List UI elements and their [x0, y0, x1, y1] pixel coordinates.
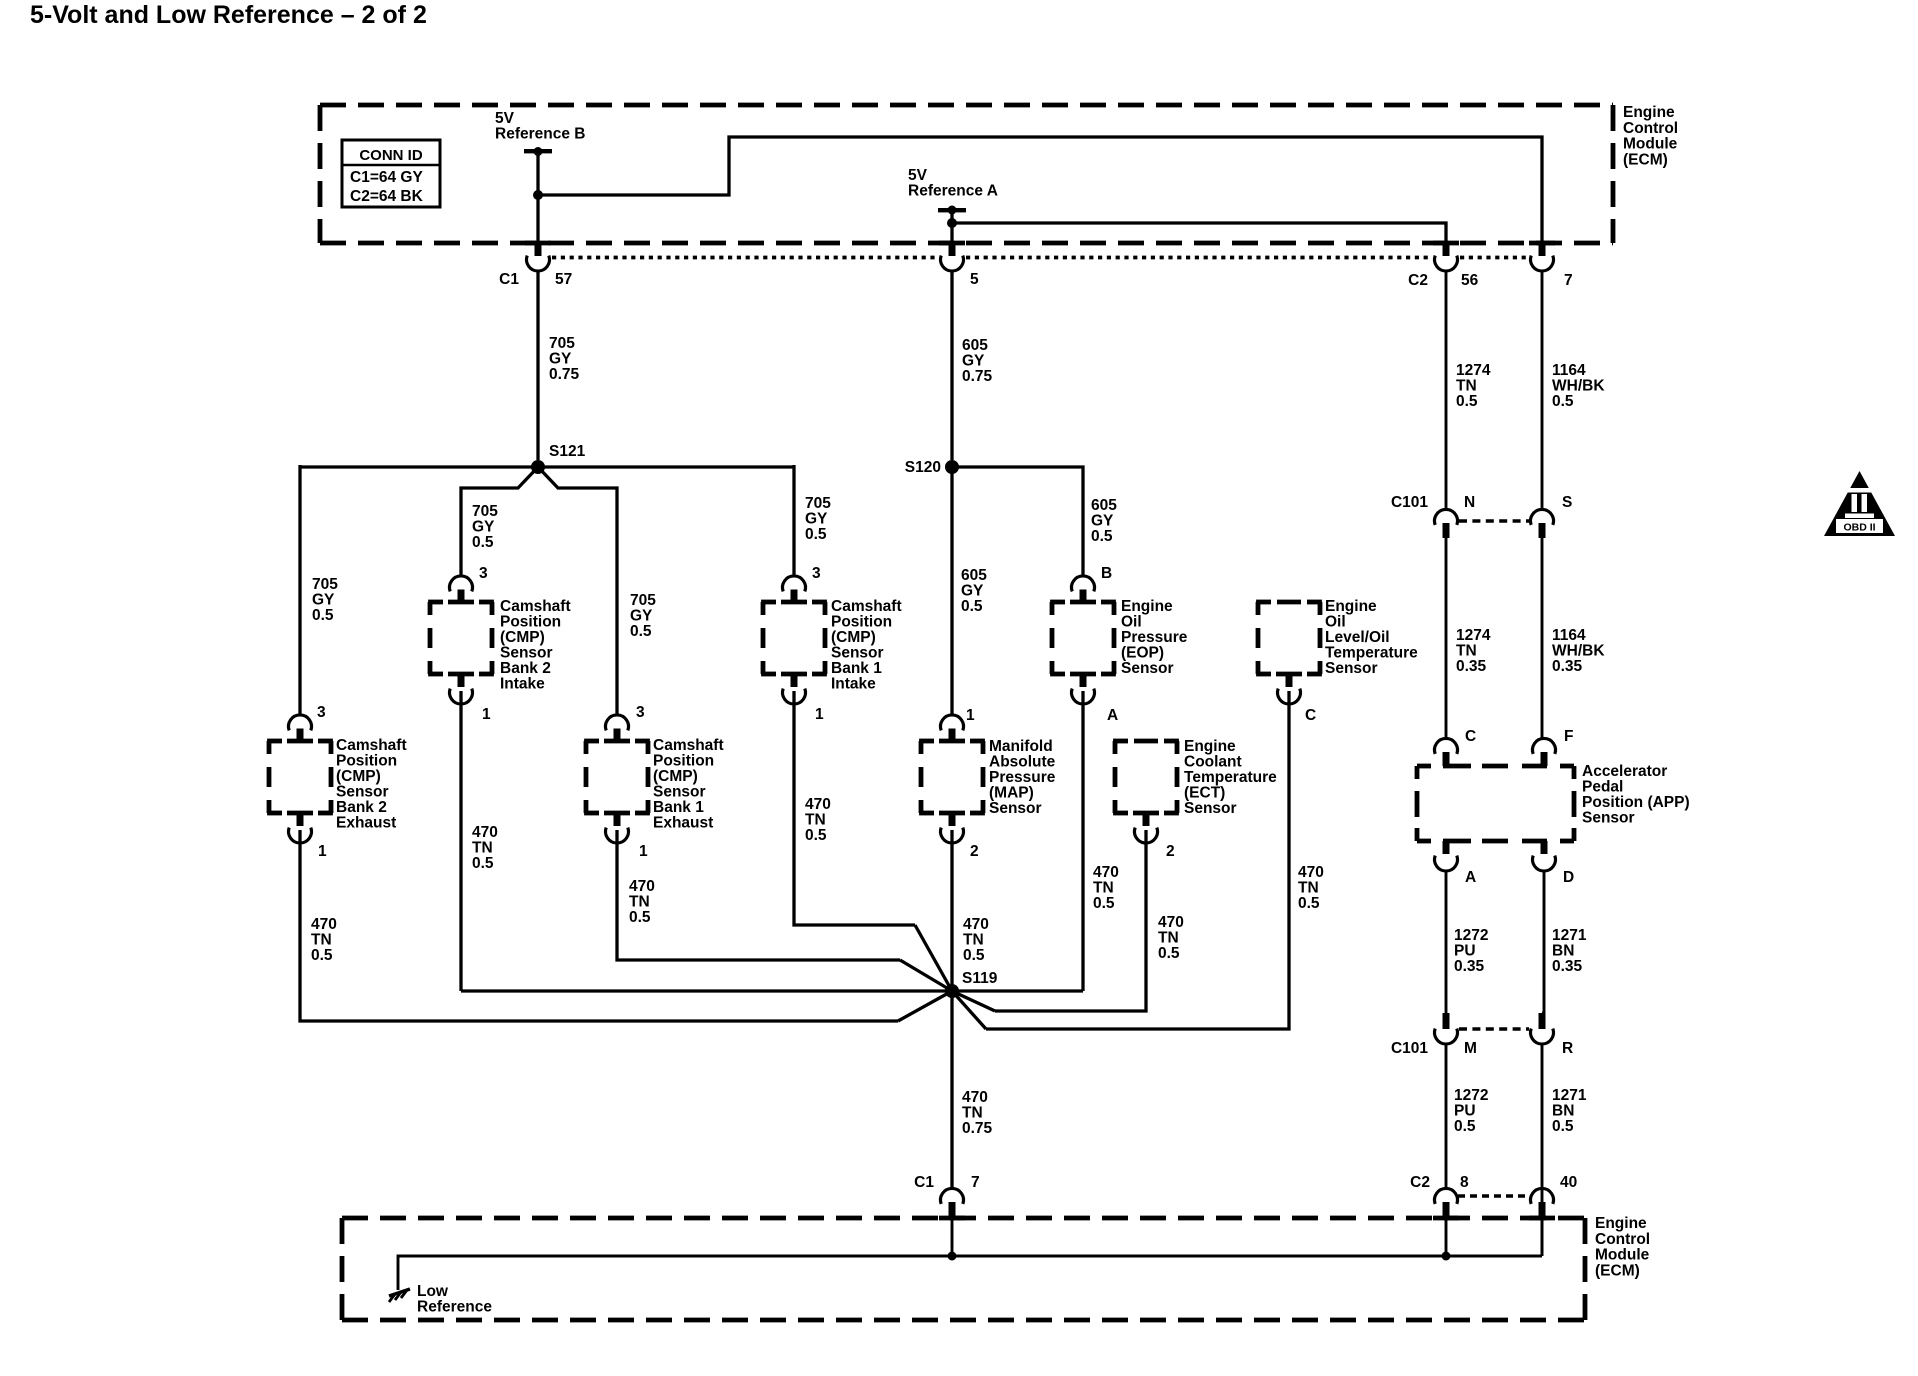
- wire low reference bus: [398, 1256, 1542, 1290]
- svg-text:C2: C2: [1408, 272, 1428, 289]
- svg-text:PU: PU: [1454, 1103, 1476, 1120]
- svg-text:705: 705: [805, 495, 831, 512]
- svg-text:1272: 1272: [1454, 1087, 1488, 1104]
- svg-text:Exhaust: Exhaust: [336, 815, 396, 832]
- junction 5V Ref B: [533, 190, 543, 200]
- sensor CMP Bank 1 Exhaust box: [584, 739, 599, 744]
- svg-text:5V: 5V: [908, 167, 928, 184]
- svg-text:Reference A: Reference A: [908, 183, 998, 200]
- svg-text:1: 1: [815, 706, 824, 723]
- svg-text:1271: 1271: [1552, 1087, 1587, 1104]
- svg-text:Position: Position: [500, 614, 561, 631]
- connector CMP B2 exhaust pin 3: [289, 715, 312, 730]
- svg-text:Camshaft: Camshaft: [336, 737, 407, 754]
- connector CMP B1 exhaust pin 1: [614, 813, 621, 826]
- connector APP pin A: [1443, 841, 1450, 854]
- wire 1164 WH/BK 0.5: [1541, 270, 1544, 510]
- wire b2e diag: [898, 991, 952, 1021]
- connector C2 pin 7: [1539, 243, 1546, 256]
- connector EOP pin B: [1072, 576, 1095, 591]
- svg-text:(ECT): (ECT): [1184, 785, 1225, 802]
- svg-text:0.5: 0.5: [1298, 895, 1320, 912]
- splice S120: [945, 460, 959, 474]
- svg-text:0.5: 0.5: [1158, 945, 1180, 962]
- svg-text:Sensor: Sensor: [989, 800, 1042, 817]
- svg-text:C101: C101: [1391, 494, 1428, 511]
- wire S120 down: [950, 467, 953, 716]
- svg-text:705: 705: [630, 592, 656, 609]
- wire 5V Ref A vertical: [950, 210, 953, 243]
- svg-text:TN: TN: [962, 1105, 983, 1122]
- svg-text:0.75: 0.75: [962, 1120, 993, 1137]
- wire 1272 PU 0.35: [1445, 870, 1448, 1013]
- connector MAP pin 2: [949, 813, 956, 826]
- svg-text:BN: BN: [1552, 1103, 1574, 1120]
- svg-text:S: S: [1562, 494, 1572, 511]
- svg-text:Camshaft: Camshaft: [653, 737, 724, 754]
- svg-text:A: A: [1107, 707, 1118, 724]
- svg-text:Sensor: Sensor: [831, 645, 884, 662]
- connector C101 R: [1539, 1013, 1546, 1029]
- connector CMP B2 exhaust pin 1: [297, 813, 304, 826]
- svg-text:470: 470: [629, 878, 655, 895]
- svg-text:7: 7: [971, 1174, 980, 1191]
- svg-text:R: R: [1562, 1040, 1573, 1057]
- svg-text:470: 470: [1298, 864, 1324, 881]
- sensor CMP Bank 2 Intake box: [428, 600, 443, 605]
- svg-text:470: 470: [963, 916, 989, 933]
- svg-text:57: 57: [555, 271, 572, 288]
- svg-text:PU: PU: [1454, 943, 1476, 960]
- svg-text:1271: 1271: [1552, 927, 1587, 944]
- svg-text:Pressure: Pressure: [989, 769, 1056, 786]
- svg-text:0.5: 0.5: [1456, 393, 1478, 410]
- sensor APP box: [1417, 764, 1431, 769]
- svg-text:Engine: Engine: [1325, 598, 1377, 615]
- svg-text:0.35: 0.35: [1552, 958, 1583, 975]
- wire 1274 TN 0.35: [1445, 538, 1448, 740]
- svg-text:GY: GY: [630, 608, 653, 625]
- svg-text:A: A: [1465, 869, 1476, 886]
- node 5V Reference A terminal: [938, 208, 966, 212]
- connector C2 pin 40 bottom: [1530, 1188, 1553, 1203]
- svg-text:Accelerator: Accelerator: [1582, 763, 1667, 780]
- svg-text:D: D: [1563, 869, 1574, 886]
- svg-text:WH/BK: WH/BK: [1552, 643, 1605, 660]
- wire S121 left corner down: [298, 465, 301, 715]
- svg-text:Temperature: Temperature: [1325, 645, 1418, 662]
- svg-text:GY: GY: [962, 353, 985, 370]
- svg-text:1164: 1164: [1552, 627, 1586, 644]
- svg-text:5: 5: [970, 271, 979, 288]
- svg-text:605: 605: [1091, 497, 1117, 514]
- svg-text:Pedal: Pedal: [1582, 779, 1623, 796]
- svg-text:(CMP): (CMP): [653, 768, 698, 785]
- svg-text:2: 2: [970, 843, 979, 860]
- C101 MR dashed line: [1459, 1027, 1529, 1030]
- svg-text:5V: 5V: [495, 110, 515, 127]
- svg-text:1274: 1274: [1456, 362, 1491, 379]
- junction 5V Ref A: [947, 218, 957, 228]
- svg-text:Intake: Intake: [500, 676, 545, 693]
- svg-text:2: 2: [1166, 843, 1175, 860]
- svg-text:C101: C101: [1391, 1040, 1428, 1057]
- svg-text:5-Volt and Low Reference – 2 o: 5-Volt and Low Reference – 2 of 2: [30, 1, 427, 29]
- svg-text:Bank 1: Bank 1: [831, 660, 882, 677]
- connector C1 pin 5: [949, 243, 956, 256]
- wire 1274 TN 0.5: [1445, 270, 1448, 510]
- ECM bottom box outline: [342, 1216, 1585, 1221]
- svg-text:Manifold: Manifold: [989, 738, 1053, 755]
- svg-text:BN: BN: [1552, 943, 1574, 960]
- svg-text:0.75: 0.75: [962, 368, 993, 385]
- sensor CMP Bank 2 Exhaust box: [267, 739, 282, 744]
- svg-text:470: 470: [1093, 864, 1119, 881]
- svg-text:0.5: 0.5: [805, 827, 827, 844]
- svg-text:3: 3: [479, 565, 488, 582]
- svg-text:1: 1: [318, 843, 327, 860]
- svg-text:TN: TN: [805, 812, 826, 829]
- wire S121 bracket left: [461, 467, 538, 576]
- svg-text:Control: Control: [1595, 1231, 1650, 1248]
- sensor CMP Bank 1 Intake box: [761, 600, 776, 605]
- svg-text:470: 470: [962, 1089, 988, 1106]
- svg-text:Bank 2: Bank 2: [336, 799, 387, 816]
- junction pin8 bottom: [1442, 1252, 1451, 1261]
- svg-text:C: C: [1305, 707, 1316, 724]
- svg-text:470: 470: [805, 796, 831, 813]
- svg-text:8: 8: [1460, 1174, 1469, 1191]
- sensor oil level box: [1256, 600, 1271, 605]
- sensor EOP box: [1050, 600, 1065, 605]
- connector C1 pin 7 bottom: [941, 1188, 964, 1203]
- splice S119: [945, 984, 959, 998]
- wire b1e diag: [900, 960, 952, 991]
- wire b1i diag: [915, 925, 952, 991]
- svg-text:470: 470: [472, 824, 498, 841]
- svg-text:0.5: 0.5: [1552, 1118, 1574, 1135]
- svg-text:0.75: 0.75: [549, 366, 580, 383]
- svg-text:Control: Control: [1623, 120, 1678, 137]
- svg-text:Position: Position: [336, 753, 397, 770]
- svg-text:1: 1: [966, 707, 975, 724]
- svg-text:C1: C1: [914, 1174, 934, 1191]
- svg-text:TN: TN: [311, 932, 332, 949]
- svg-text:470: 470: [1158, 914, 1184, 931]
- sensor ECT box: [1113, 739, 1128, 744]
- wire S121 right corner down: [792, 465, 795, 576]
- wire 605 GY 0.75: [950, 270, 953, 460]
- svg-text:Temperature: Temperature: [1184, 769, 1277, 786]
- connector ECT pin 2: [1143, 813, 1150, 826]
- svg-text:Oil: Oil: [1325, 614, 1346, 631]
- svg-text:(MAP): (MAP): [989, 785, 1034, 802]
- svg-text:C2: C2: [1410, 1174, 1430, 1191]
- svg-text:Absolute: Absolute: [989, 754, 1056, 771]
- svg-text:0.5: 0.5: [629, 909, 651, 926]
- svg-text:0.5: 0.5: [805, 526, 827, 543]
- svg-text:Sensor: Sensor: [1121, 660, 1174, 677]
- wire S121 horizontal: [300, 465, 794, 468]
- connector face dotted line: [552, 256, 938, 260]
- svg-text:F: F: [1564, 728, 1573, 745]
- svg-text:1272: 1272: [1454, 927, 1488, 944]
- svg-text:Sensor: Sensor: [336, 784, 389, 801]
- svg-text:Engine: Engine: [1623, 104, 1675, 121]
- wire 1164 WH/BK 0.35: [1541, 538, 1544, 740]
- svg-text:56: 56: [1461, 272, 1479, 289]
- CONN ID table: [342, 140, 440, 207]
- svg-text:Oil: Oil: [1121, 614, 1142, 631]
- junction pin7 bottom: [948, 1252, 957, 1261]
- svg-text:(EOP): (EOP): [1121, 645, 1164, 662]
- wire 1272 PU 0.5: [1445, 1043, 1448, 1189]
- svg-text:0.5: 0.5: [1093, 895, 1115, 912]
- C2 bottom dotted line: [1458, 1194, 1527, 1197]
- wire 5V Ref A to pin56: [952, 223, 1446, 243]
- wire S121 bracket right: [538, 467, 617, 715]
- wire S119 to oil level diag: [952, 991, 986, 1029]
- svg-text:CONN ID: CONN ID: [359, 147, 423, 164]
- connector C2 pin 8 bottom: [1435, 1188, 1458, 1203]
- connector CMP B2 intake pin 3: [449, 576, 472, 591]
- svg-text:Sensor: Sensor: [1325, 660, 1378, 677]
- svg-text:TN: TN: [472, 840, 493, 857]
- svg-text:Low: Low: [417, 1283, 449, 1300]
- svg-text:Exhaust: Exhaust: [653, 815, 713, 832]
- svg-text:0.5: 0.5: [1552, 393, 1574, 410]
- svg-text:Module: Module: [1623, 136, 1678, 153]
- wire 470 TN 0.5 ect: [995, 830, 1146, 1011]
- svg-text:Reference: Reference: [417, 1299, 492, 1316]
- wire 1271 BN 0.5: [1541, 1043, 1544, 1189]
- wire 470 TN 0.5 map: [950, 830, 953, 991]
- svg-text:1164: 1164: [1552, 362, 1586, 379]
- wire S120 to EOP: [952, 467, 1083, 576]
- connector EOP pin A: [1080, 674, 1087, 687]
- svg-text:605: 605: [962, 337, 988, 354]
- svg-text:Bank 2: Bank 2: [500, 660, 551, 677]
- svg-text:1: 1: [482, 706, 491, 723]
- svg-text:605: 605: [961, 567, 987, 584]
- wire 470 TN 0.5 b2e: [300, 830, 898, 1021]
- svg-text:TN: TN: [629, 894, 650, 911]
- connector APP pin C: [1435, 738, 1458, 753]
- svg-text:Bank 1: Bank 1: [653, 799, 704, 816]
- wire 5V Ref B vertical: [536, 151, 539, 243]
- svg-text:Position: Position: [653, 753, 714, 770]
- wire 470 TN 0.5 b1i: [794, 691, 915, 925]
- svg-text:GY: GY: [805, 511, 828, 528]
- svg-text:TN: TN: [1158, 930, 1179, 947]
- svg-text:TN: TN: [963, 932, 984, 949]
- wire 470 TN 0.5 eop: [1081, 691, 1084, 991]
- wire 705 GY 0.75: [536, 270, 539, 460]
- svg-text:0.5: 0.5: [630, 623, 652, 640]
- wire 470 TN 0.5 oil level: [986, 691, 1289, 1029]
- wire 470 TN 0.75: [950, 991, 953, 1189]
- svg-text:Sensor: Sensor: [500, 645, 553, 662]
- svg-text:N: N: [1464, 494, 1475, 511]
- svg-text:1274: 1274: [1456, 627, 1491, 644]
- svg-text:C1: C1: [499, 271, 519, 288]
- svg-text:Sensor: Sensor: [1184, 800, 1237, 817]
- svg-text:S121: S121: [549, 443, 586, 460]
- svg-text:Level/Oil: Level/Oil: [1325, 629, 1390, 646]
- svg-text:3: 3: [317, 704, 326, 721]
- connector C101 S: [1531, 509, 1554, 524]
- svg-text:Position (APP): Position (APP): [1582, 794, 1690, 811]
- svg-text:0.5: 0.5: [472, 534, 494, 551]
- svg-text:1: 1: [639, 843, 648, 860]
- connector C101 N: [1435, 509, 1458, 524]
- svg-text:GY: GY: [1091, 513, 1114, 530]
- wire 1271 BN 0.35: [1543, 870, 1546, 1013]
- connector CMP B1 exhaust pin 3: [606, 715, 629, 730]
- svg-text:OBD II: OBD II: [1843, 522, 1875, 534]
- svg-text:Intake: Intake: [831, 676, 876, 693]
- svg-text:C2=64 BK: C2=64 BK: [350, 188, 424, 205]
- connector C2 pin 56: [1443, 243, 1450, 256]
- svg-text:705: 705: [472, 503, 498, 520]
- connector CMP B1 intake pin 3: [783, 576, 806, 591]
- svg-text:0.5: 0.5: [1454, 1118, 1476, 1135]
- connector C101 M: [1443, 1013, 1450, 1029]
- svg-text:0.35: 0.35: [1454, 958, 1485, 975]
- svg-text:B: B: [1101, 565, 1112, 582]
- svg-text:(CMP): (CMP): [500, 629, 545, 646]
- svg-text:GY: GY: [961, 583, 984, 600]
- connector oil level pin C: [1286, 674, 1293, 687]
- connector APP pin D: [1541, 841, 1548, 854]
- svg-text:470: 470: [311, 916, 337, 933]
- svg-text:3: 3: [812, 565, 821, 582]
- wire 470 TN 0.5 b2i: [459, 691, 462, 991]
- svg-text:0.5: 0.5: [312, 607, 334, 624]
- svg-text:(CMP): (CMP): [336, 768, 381, 785]
- wire S119 to ECT diag: [952, 991, 995, 1011]
- svg-text:40: 40: [1560, 1174, 1577, 1191]
- svg-text:Camshaft: Camshaft: [500, 598, 571, 615]
- svg-text:Engine: Engine: [1184, 738, 1236, 755]
- svg-text:0.5: 0.5: [961, 598, 983, 615]
- svg-text:GY: GY: [312, 592, 335, 609]
- svg-text:0.5: 0.5: [963, 947, 985, 964]
- svg-text:TN: TN: [1093, 880, 1114, 897]
- svg-text:TN: TN: [1298, 880, 1319, 897]
- svg-text:Reference B: Reference B: [495, 126, 585, 143]
- C101 NS dashed line: [1459, 519, 1529, 522]
- svg-text:Camshaft: Camshaft: [831, 598, 902, 615]
- svg-text:Engine: Engine: [1595, 1215, 1647, 1232]
- svg-text:(CMP): (CMP): [831, 629, 876, 646]
- svg-text:Coolant: Coolant: [1184, 754, 1242, 771]
- svg-text:TN: TN: [1456, 643, 1477, 660]
- svg-text:3: 3: [636, 704, 645, 721]
- svg-text:705: 705: [312, 576, 338, 593]
- svg-text:S119: S119: [962, 970, 998, 987]
- svg-text:705: 705: [549, 335, 575, 352]
- svg-text:Pressure: Pressure: [1121, 629, 1188, 646]
- sensor MAP box: [919, 739, 934, 744]
- svg-text:Sensor: Sensor: [1582, 810, 1635, 827]
- svg-text:0.5: 0.5: [472, 855, 494, 872]
- svg-text:WH/BK: WH/BK: [1552, 378, 1605, 395]
- svg-text:Sensor: Sensor: [653, 784, 706, 801]
- svg-text:7: 7: [1564, 272, 1573, 289]
- wire 470 TN 0.5 b1e: [617, 830, 900, 960]
- svg-text:(ECM): (ECM): [1595, 1262, 1640, 1279]
- svg-text:Position: Position: [831, 614, 892, 631]
- svg-text:0.5: 0.5: [1091, 528, 1113, 545]
- svg-text:0.5: 0.5: [311, 947, 333, 964]
- wire S119 to EOP: [952, 989, 1083, 992]
- OBD II symbol: [1824, 471, 1895, 536]
- svg-text:(ECM): (ECM): [1623, 151, 1668, 168]
- ECM top box outline: [320, 103, 1613, 108]
- svg-text:M: M: [1464, 1040, 1477, 1057]
- svg-text:S120: S120: [905, 459, 941, 476]
- splice S121: [531, 460, 545, 474]
- svg-text:C: C: [1465, 728, 1476, 745]
- wire b2i into S119: [461, 989, 952, 992]
- svg-text:0.35: 0.35: [1552, 658, 1583, 675]
- connector APP pin F: [1532, 738, 1555, 753]
- wire 5V Ref B to pin7: [538, 137, 1542, 243]
- connector MAP pin 1: [941, 715, 964, 730]
- svg-text:Engine: Engine: [1121, 598, 1173, 615]
- svg-text:GY: GY: [549, 351, 572, 368]
- svg-text:GY: GY: [472, 519, 495, 536]
- ground low reference: [389, 1289, 410, 1296]
- connector CMP B2 intake pin 1: [458, 674, 465, 687]
- svg-text:Module: Module: [1595, 1247, 1650, 1264]
- svg-text:0.35: 0.35: [1456, 658, 1487, 675]
- svg-text:C1=64 GY: C1=64 GY: [350, 169, 423, 186]
- connector CMP B1 intake pin 1: [791, 674, 798, 687]
- node 5V Reference B terminal: [524, 149, 552, 153]
- connector C1 pin 57: [535, 243, 542, 256]
- svg-text:TN: TN: [1456, 378, 1477, 395]
